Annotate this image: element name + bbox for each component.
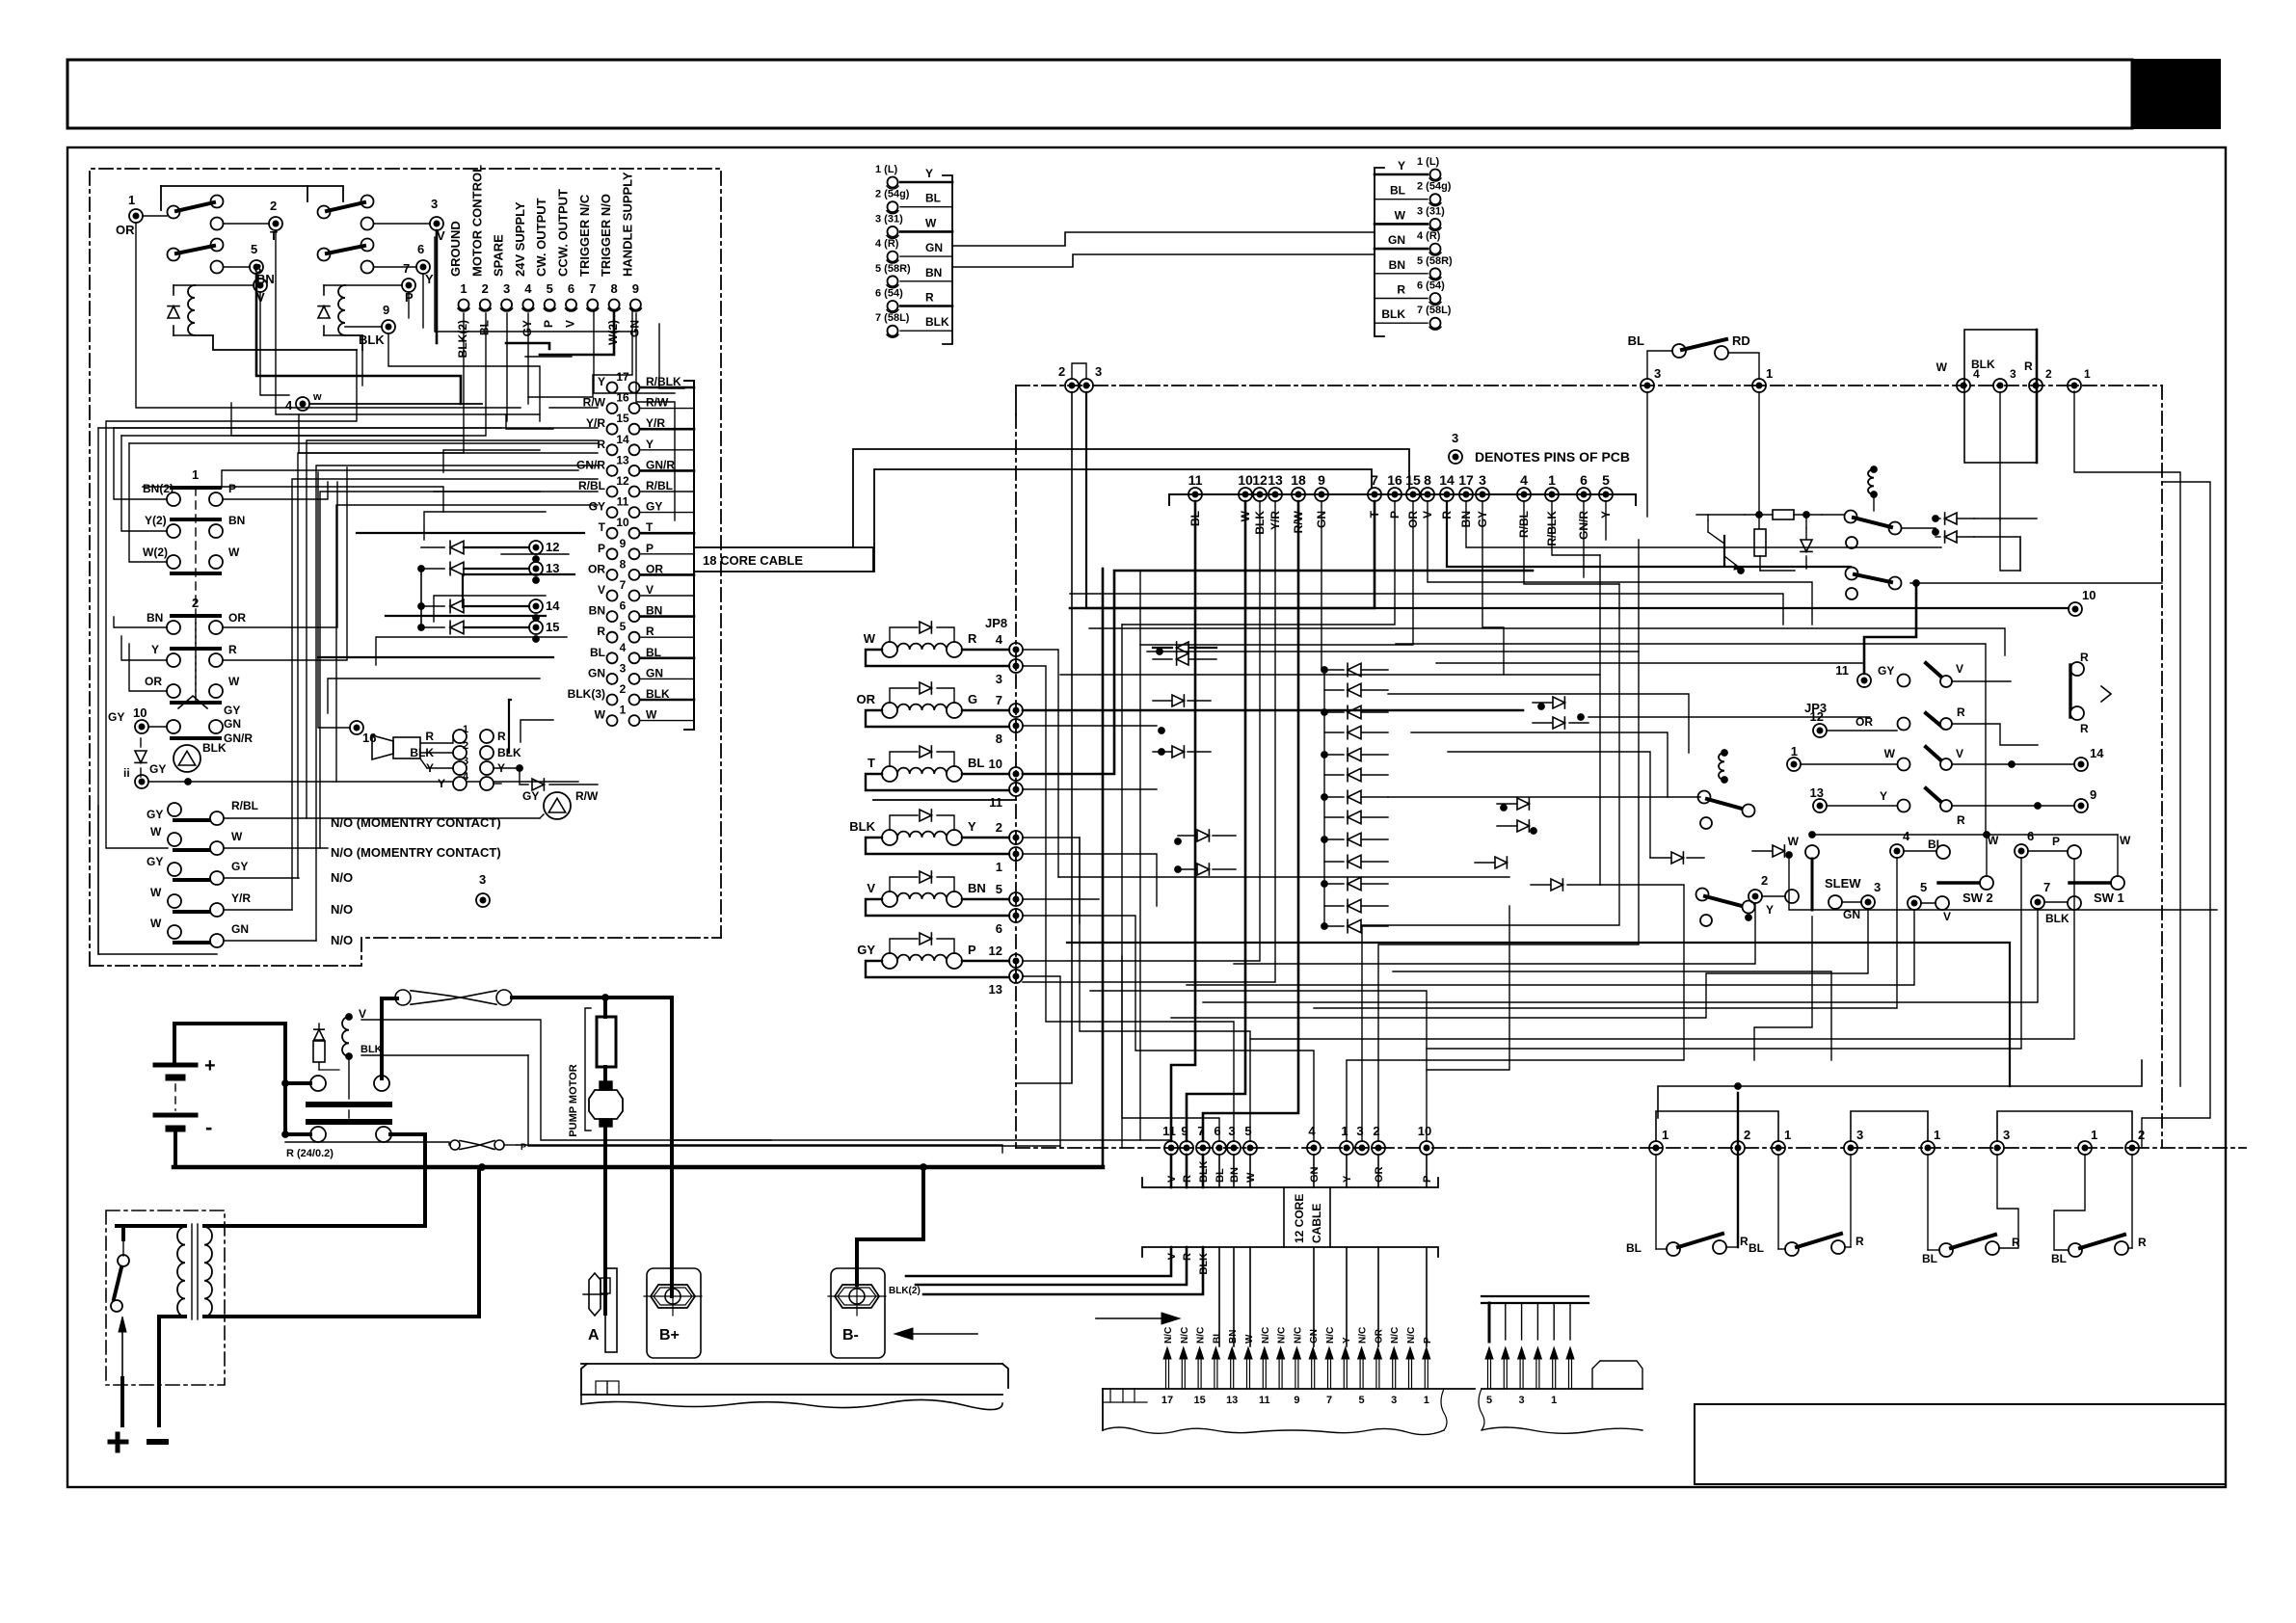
wire [1482,501,1504,675]
strip pin 7 [1327,1357,1329,1389]
wire [1466,501,1941,547]
svg-text:6: 6 [996,921,1002,936]
svg-text:P: P [521,1142,526,1152]
PCB top pin 2b [2029,379,2042,392]
wire [1023,666,1234,1141]
svg-text:4: 4 [620,641,627,654]
svg-text:15: 15 [546,620,559,634]
svg-text:R: R [425,730,434,743]
pump motor [589,1090,623,1119]
svg-text:SW 1: SW 1 [2094,891,2124,905]
wire [1187,910,1914,985]
strip right group [1482,1388,1642,1390]
svg-text:1: 1 [1934,1128,1940,1142]
horn switch [167,720,180,733]
svg-text:4: 4 [1903,829,1910,843]
svg-text:10: 10 [1418,1124,1431,1138]
svg-text:Y: Y [1342,1337,1352,1344]
diode DL3 [1172,695,1184,706]
wire [136,223,521,408]
svg-text:GY: GY [147,855,163,868]
svg-text:12: 12 [616,474,629,488]
SW1 pin 7 [2031,895,2044,909]
node 3 [430,217,443,230]
svg-text:R/W: R/W [575,789,599,803]
diode D8 [318,1024,320,1029]
SW2 pin 4 [1890,844,1904,858]
direction arrow right [1096,1317,1161,1319]
svg-text:18 CORE CABLE: 18 CORE CABLE [703,553,803,568]
wire [506,343,549,349]
wire [1023,916,1314,1141]
wire [1321,501,1322,670]
BR pin 3@1920 [1844,1141,1857,1155]
svg-text:GN: GN [1388,233,1405,247]
svg-text:N/C: N/C [1325,1327,1336,1344]
18 core cable label box [694,547,873,572]
wire [1016,392,1072,1083]
wire [1060,674,1600,676]
svg-text:12: 12 [546,540,559,554]
strip left cap [1103,1401,1147,1403]
matrix diode 13 [1348,919,1361,933]
svg-text:9: 9 [2090,787,2096,802]
J1 bracket [684,381,694,730]
svg-text:11: 11 [1259,1395,1270,1406]
svg-text:BN: BN [1389,258,1405,272]
12 core cable box [1283,1187,1285,1247]
svg-text:Y/R: Y/R [231,891,251,905]
wire [1599,555,1601,885]
svg-text:1: 1 [1424,1395,1429,1406]
svg-text:BLK: BLK [1971,358,1995,371]
svg-text:N/O: N/O [331,870,353,885]
svg-text:7: 7 [2043,880,2050,894]
wire [1139,571,1141,1140]
svg-text:V: V [437,228,445,243]
comb connector above right group [1482,1295,1589,1297]
svg-text:15: 15 [616,412,629,425]
wire [1121,956,1123,1148]
svg-text:2: 2 [192,596,199,610]
JP8 pin 4 [962,649,1009,651]
diode rail [420,569,422,627]
svg-text:2: 2 [620,682,627,696]
node 15 [529,621,543,634]
svg-text:3: 3 [996,672,1002,686]
svg-text:GN: GN [925,241,943,254]
relay K4 arm b [1696,889,1709,901]
BR pin 1@2000 [1921,1141,1935,1155]
node 7 [402,279,415,292]
wire [1023,838,1250,1141]
strip pin 5 [1359,1357,1361,1389]
fuse F1 [382,997,397,1000]
wire [2142,482,2210,1148]
wire F1 left leg [380,998,384,1078]
diode DR6 [1551,879,1562,891]
strip pin 4 [1375,1357,1377,1389]
svg-text:3: 3 [2003,1128,2010,1142]
wire [1023,854,1157,906]
B+ stud [647,1268,701,1358]
svg-text:9: 9 [620,537,627,550]
svg-text:12: 12 [1252,472,1268,488]
JP8 pin 3 [1009,659,1023,673]
B- stud [831,1268,885,1358]
wire [1754,917,1812,1060]
diode DL6 [1197,864,1209,875]
svg-text:GN: GN [1309,1329,1320,1344]
svg-text:2: 2 [996,820,1002,835]
wire [1070,594,1783,625]
contact block outline [97,806,99,954]
svg-text:R: R [925,291,934,305]
diode DR2 [1553,717,1564,729]
svg-text:T: T [270,228,278,243]
wire [114,617,167,627]
diode D6 [1805,528,1807,540]
J4 pin 4 [1430,244,1441,254]
svg-text:P: P [228,482,236,495]
relay K3 coil [1871,466,1878,473]
svg-text:2 (54g): 2 (54g) [1417,181,1452,193]
horn switch actuator [178,696,207,708]
svg-text:N/C: N/C [1277,1327,1288,1344]
relay K1 fixed contacts [211,218,224,230]
svg-text:BN: BN [147,611,163,625]
PCB boundary dash-dot [1016,385,2162,386]
transformer primary top wire [117,1224,185,1228]
svg-text:N/C: N/C [1390,1327,1401,1344]
svg-text:1: 1 [128,193,135,207]
baseplate [581,1364,1002,1395]
switch S1 mechanical link [195,488,197,697]
wire [1067,943,2010,1086]
svg-text:V: V [1956,662,1963,676]
svg-text:R: R [597,438,605,451]
wire [1086,392,2069,608]
speaker [372,735,393,759]
svg-text:17: 17 [616,370,629,384]
wire [1411,732,1668,797]
PCB bottom dash-dot row [1016,1147,2246,1149]
svg-text:P: P [1422,1176,1433,1183]
node 1 [129,209,143,223]
svg-text:GY: GY [1878,664,1894,678]
strip2 pin 4 [1552,1357,1554,1389]
wire [121,636,167,660]
svg-text:13: 13 [1810,785,1824,800]
node 2 [269,217,282,230]
svg-text:1: 1 [2084,367,2091,381]
svg-text:14: 14 [1439,472,1455,488]
wire [1974,518,2037,519]
svg-text:4 (R): 4 (R) [1417,230,1441,242]
node 14 [2074,758,2088,771]
svg-text:OR: OR [857,692,876,706]
svg-text:W: W [1788,835,1800,848]
svg-text:N/C: N/C [1163,1327,1174,1344]
svg-text:BL: BL [1390,184,1405,198]
svg-text:3: 3 [1654,366,1661,381]
svg-text:4: 4 [524,281,532,296]
svg-text:BLK(2): BLK(2) [889,1286,921,1296]
strip pin 10 [1278,1357,1280,1389]
svg-text:W: W [231,830,243,843]
terminal minus [149,1439,166,1445]
wire [299,313,464,453]
wire [506,414,553,429]
matrix diode 8 [1348,811,1361,824]
solenoid T return wire [866,774,1009,790]
J4 bracket [1375,168,1384,336]
wire [1023,501,1260,961]
wire [443,450,540,472]
svg-text:DENOTES PINS OF PCB: DENOTES PINS OF PCB [1475,449,1630,465]
left arrow B- to cable [913,1333,977,1335]
resistor R4 [313,1041,325,1062]
node 10b [2069,602,2082,616]
svg-text:R: R [968,631,977,646]
transformer secondary top wire [204,1224,425,1228]
main switch [118,1255,129,1266]
wire K1 coil bottom [195,335,357,350]
solenoid GY return wire [866,961,1009,977]
diode DR7 [1773,845,1784,857]
strip right cap box [1592,1361,1642,1389]
wire [1388,694,1689,753]
wire J3-J4 a [952,232,1375,246]
svg-text:17: 17 [1458,472,1474,488]
BR bridge B [1851,1111,1928,1141]
W bus [1812,834,2118,836]
svg-text:1: 1 [1551,1395,1557,1406]
J4 pin 5 [1430,268,1441,279]
B- wire [857,1167,923,1285]
switch K3b [1846,568,1858,580]
wire [2019,537,2021,571]
wire [318,656,553,658]
svg-text:OR: OR [588,562,605,575]
svg-text:N/C: N/C [1358,1327,1369,1344]
svg-text:7: 7 [1371,472,1378,488]
svg-text:P: P [968,943,976,957]
wire contact to transformer [390,1134,425,1226]
wire [376,637,567,665]
svg-text:P: P [2052,835,2060,848]
svg-text:7: 7 [589,281,596,296]
wire J3-J4 b [952,254,1375,267]
svg-text:6: 6 [1580,472,1588,488]
wire [222,470,578,488]
svg-text:9: 9 [1318,472,1325,488]
svg-text:R: R [2080,722,2089,735]
svg-text:GN: GN [627,320,641,337]
wire [1378,540,1639,1141]
svg-text:2: 2 [1744,1128,1750,1142]
wire [2074,391,2180,1086]
BR bus [1658,1060,2142,1118]
diode pair DP1 [1945,513,1957,524]
wire [1089,628,2005,655]
svg-text:N/O: N/O [331,902,353,917]
wire [1388,796,1700,798]
wire [528,310,632,397]
wire [1023,650,1058,877]
svg-text:17: 17 [1161,1395,1173,1406]
wire [129,442,598,444]
contactor bar b [308,1119,389,1125]
wire [1436,663,1864,674]
svg-text:GY: GY [521,320,534,336]
wire [659,324,684,388]
matrix diode 5 [1348,748,1361,761]
svg-text:SW 2: SW 2 [1962,891,1993,905]
svg-text:Y: Y [925,167,933,180]
wire [121,435,463,437]
svg-text:5: 5 [1486,1395,1492,1406]
svg-text:3: 3 [1391,1395,1397,1406]
wire [298,414,300,453]
svg-text:OR: OR [1374,1328,1384,1344]
svg-text:V: V [646,583,654,597]
svg-text:1: 1 [460,281,467,296]
svg-text:3 (31): 3 (31) [875,213,903,225]
wire [1552,501,1600,555]
svg-text:13: 13 [1226,1395,1238,1406]
J4 pin 1 [1430,170,1441,180]
relay K2 fixed contacts [361,218,374,230]
wire [422,274,424,328]
svg-text:3: 3 [1095,364,1102,379]
svg-text:N/C: N/C [1180,1327,1190,1344]
wire [1122,501,1395,625]
wire [143,487,443,512]
svg-text:4 (R): 4 (R) [875,238,899,250]
wire [1140,501,1413,645]
node 13 [529,562,543,575]
wire [114,427,501,429]
wire [276,230,540,414]
battery cell 2 [155,1113,196,1118]
relay K2 coil [338,285,345,335]
svg-text:P: P [598,542,605,555]
matrix diode 7 [1348,790,1361,804]
svg-text:1: 1 [1662,1128,1669,1142]
svg-text:3: 3 [1874,880,1881,894]
wire [357,532,584,534]
svg-text:4: 4 [1308,1124,1316,1138]
svg-text:8: 8 [1424,472,1431,488]
svg-text:Y: Y [598,375,605,388]
BR pin 2@1803 [1731,1141,1745,1155]
svg-text:BN: BN [228,514,245,527]
svg-text:T: T [599,520,606,534]
PCB top pin 4 [1957,379,1970,392]
wire [361,350,363,386]
svg-text:11: 11 [1162,1124,1176,1138]
svg-text:T: T [868,756,875,770]
wire [256,274,461,404]
svg-text:3: 3 [1452,431,1458,445]
JP8 pin 7 [962,709,1009,711]
svg-text:13: 13 [546,561,559,575]
wire [106,350,357,848]
PCB top pin 2 [1065,379,1079,392]
transformer core [191,1224,193,1319]
svg-text:OR: OR [1374,1166,1385,1183]
svg-text:BL: BL [1922,1252,1937,1265]
svg-text:GY: GY [147,808,163,821]
svg-text:4: 4 [285,398,293,412]
PCB top pin 3 [1641,379,1654,392]
svg-text:N/C: N/C [1261,1327,1271,1344]
wire [873,799,1016,801]
svg-text:N/C: N/C [1406,1327,1417,1344]
wire [1090,991,1427,1141]
wire [1323,670,1325,926]
svg-text:GY: GY [522,789,539,803]
svg-text:7: 7 [1326,1395,1332,1406]
wire [98,427,598,429]
svg-text:W: W [150,917,162,930]
svg-text:BL: BL [1626,1241,1642,1255]
svg-text:R: R [1397,283,1405,297]
svg-text:3: 3 [1519,1395,1525,1406]
wire [1362,584,1619,1141]
wire [1023,571,1533,774]
diode DL1 [1177,642,1188,653]
svg-text:CW. OUTPUT: CW. OUTPUT [534,198,548,277]
svg-text:GY: GY [231,860,248,873]
svg-text:Y: Y [1880,789,1887,803]
svg-text:R/BL: R/BL [578,479,605,492]
wire [361,1054,528,1056]
JP8 pin 1 [1009,847,1023,861]
svg-text:R: R [646,625,654,638]
svg-text:Y(2): Y(2) [145,514,167,527]
svg-text:2: 2 [1761,873,1768,888]
wire [114,428,167,499]
svg-text:BLK: BLK [202,741,227,755]
drawing border [67,147,2226,1487]
wire [386,615,546,617]
svg-text:A: A [588,1327,600,1344]
switch SW12 [1813,724,1827,737]
svg-text:W: W [1245,1172,1257,1183]
svg-text:3: 3 [431,197,438,211]
main switch arrow [121,1322,123,1378]
svg-text:W: W [1936,360,1948,374]
node 4 [296,397,309,411]
A stud [589,1273,601,1316]
wire [1203,909,2038,1002]
svg-text:15: 15 [1405,472,1421,488]
wire [1102,569,1105,1167]
wire [1171,501,1195,1141]
handle assembly dash-dot enclosure [90,169,721,966]
BR pin 1@2163 [2078,1141,2092,1155]
wire [509,700,511,753]
svg-text:B-: B- [842,1327,859,1344]
svg-text:BN: BN [1229,1167,1241,1183]
svg-text:R: R [2138,1236,2147,1249]
svg-text:W: W [150,825,162,838]
strip pin 14 [1214,1357,1215,1389]
svg-text:1: 1 [192,467,199,482]
B+ drop [670,998,674,1296]
